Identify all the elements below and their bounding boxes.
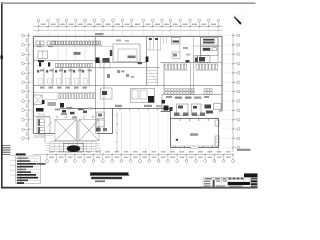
title block bottom row marks bbox=[216, 186, 225, 187]
top right room upper outline bbox=[201, 38, 219, 46]
building left outer wall bbox=[33, 37, 35, 134]
top band pair labels bbox=[37, 46, 42, 47]
skylight center divider bbox=[77, 120, 79, 153]
corridor hatch y93 bbox=[58, 94, 60, 99]
left wing bottom wall east segment bbox=[97, 133, 113, 135]
legend leader lines bbox=[10, 155, 16, 157]
drawing title underline bbox=[90, 175, 130, 177]
left grid bubble stems bbox=[25, 35, 30, 37]
left cluster line y99 bbox=[44, 99, 58, 101]
title block vertical dividers bbox=[213, 177, 215, 187]
shaft bank verticals bbox=[149, 37, 151, 51]
left grid bubbles column bbox=[22, 34, 25, 37]
corridor band hatch right upper bbox=[204, 89, 206, 92]
title block right column cells bbox=[251, 178, 257, 180]
top grid bubbles row bbox=[37, 19, 40, 22]
bottom dimension line bbox=[33, 154, 234, 156]
grid column stubs through top band bbox=[57, 37, 59, 61]
terrace left structure bbox=[34, 136, 46, 138]
left wall bottom blob bbox=[36, 108, 44, 112]
mid room small marks bbox=[117, 70, 120, 73]
courtyard box lower bbox=[172, 52, 180, 59]
hall right wall boxes upper bbox=[215, 120, 219, 126]
title block horizontal divider bbox=[203, 179, 258, 181]
hall left connector wall bbox=[170, 109, 172, 119]
corridor band hatch lower bbox=[165, 92, 167, 95]
wing lower rooms bbox=[97, 112, 105, 119]
courtyard left verticals bbox=[163, 37, 165, 45]
top right left col boxes bbox=[194, 56, 197, 63]
drawing title sub label bbox=[95, 180, 105, 182]
hall right connector wall bbox=[219, 110, 223, 112]
lower left furniture 2 bbox=[38, 127, 44, 134]
mid right wall x193 bbox=[193, 63, 195, 95]
center wall x157 bbox=[157, 37, 159, 86]
scale label right bbox=[237, 149, 251, 151]
left corridor hatch row bbox=[56, 63, 58, 67]
skylight box 2 with X bbox=[79, 120, 99, 141]
courtyard box upper bbox=[172, 38, 181, 45]
terrace end steps left bbox=[46, 143, 51, 145]
hall entrance notch bbox=[191, 147, 198, 149]
center small bar bbox=[110, 50, 112, 56]
left wing bottom wall west segment bbox=[34, 133, 56, 135]
terrace horizontal grid lines bbox=[50, 140, 96, 142]
left grid feed lines bbox=[29, 35, 33, 37]
courtyard second dim line bbox=[121, 112, 123, 148]
left section wall y60 bbox=[34, 60, 96, 62]
building top wall shadow line bbox=[34, 34, 223, 36]
left margin note stack bbox=[3, 145, 11, 147]
skylight partial diagonals bbox=[47, 122, 52, 127]
core text row bbox=[166, 96, 172, 98]
north arrow needle bbox=[234, 16, 242, 25]
terrace dark pool bbox=[67, 145, 81, 152]
left wing room fixtures bbox=[37, 70, 39, 73]
mid bottom wall bbox=[60, 108, 171, 110]
corridor band lower wall bbox=[162, 94, 222, 96]
terrace stage outline bbox=[64, 143, 84, 152]
legend text bars bbox=[17, 157, 28, 159]
core lower box row bbox=[174, 113, 180, 117]
dark door bar 1 bbox=[39, 62, 41, 66]
legend table outline bbox=[16, 156, 41, 183]
top band underline bbox=[34, 45, 103, 47]
title block left cell marks bbox=[204, 181, 211, 182]
big center room inner bbox=[118, 49, 137, 62]
center low box bbox=[131, 89, 155, 103]
top dimension ticks bbox=[37, 25, 39, 27]
hall outline bbox=[171, 119, 219, 148]
top right room lower outline bbox=[201, 47, 219, 56]
dark door bar 2 bbox=[48, 62, 50, 66]
right room A hatch underline bbox=[165, 69, 189, 71]
top right dark bars lower bbox=[203, 48, 211, 51]
courtyard box right edge bbox=[179, 44, 181, 52]
skylight area text blobs bbox=[55, 109, 60, 111]
top band left box pair 1 bbox=[36, 41, 40, 45]
wall under top hatch row bbox=[34, 46, 113, 48]
mid right wall x162 bbox=[163, 63, 165, 95]
top mid text label bbox=[95, 33, 104, 35]
top secondary dimension line bbox=[33, 29, 223, 31]
drawing title text row 1 bbox=[90, 172, 128, 175]
cluster right boxes bbox=[214, 104, 222, 110]
border frame left line bbox=[1, 2, 3, 189]
title block top-right dark strip bbox=[244, 173, 258, 177]
core dark blob 3 bbox=[170, 107, 173, 111]
core wall y111 bbox=[161, 111, 171, 113]
terrace vertical grid lines bbox=[49, 141, 51, 151]
hall right wall boxes lower bbox=[215, 136, 219, 146]
left cluster text bbox=[48, 102, 57, 106]
right dimension line bbox=[232, 33, 234, 152]
lower left furniture 1 bbox=[38, 119, 44, 126]
courtyard speckle labels bbox=[116, 40, 121, 42]
right room B hatch underline bbox=[196, 69, 218, 71]
mid right wall x190 bbox=[190, 63, 192, 95]
center room label bbox=[128, 56, 136, 59]
mid right rooms top wall bbox=[160, 62, 222, 64]
drawing title text row 2 bbox=[91, 177, 122, 179]
top right small room bbox=[198, 56, 211, 63]
mid horizontal wall bbox=[34, 85, 223, 87]
building left wall shadow line bbox=[31, 37, 33, 134]
left room wall y116 bbox=[34, 116, 51, 118]
left room dark label bbox=[38, 60, 44, 62]
lower left room circles bbox=[39, 114, 41, 116]
right grid bubbles column bbox=[237, 34, 240, 37]
north arrow circle bbox=[233, 15, 244, 26]
lower left room outline bbox=[37, 117, 50, 134]
room label x74 bbox=[74, 52, 81, 55]
bottom dimension ticks bbox=[46, 153, 48, 155]
terrace end steps right bbox=[96, 143, 101, 145]
left wing bottom parallel line bbox=[34, 134, 54, 136]
top grid drop lines bbox=[38, 27, 40, 36]
center dark door x146 bbox=[146, 57, 149, 63]
bottom dimension numbers upper bbox=[49, 151, 54, 152]
shaft bank bottom line bbox=[147, 49, 162, 51]
hall bottom column ticks bbox=[174, 146, 176, 148]
hall below dim ticks bbox=[170, 148, 172, 155]
hall bottom inner line bbox=[171, 145, 219, 147]
center corridor marks bbox=[121, 71, 125, 73]
courtyard bottom ticks bbox=[100, 148, 102, 155]
cluster dark marks bbox=[178, 106, 183, 109]
crossed equipment box bbox=[34, 95, 43, 105]
center mark 1 bbox=[138, 62, 143, 64]
left wing room text blobs bbox=[40, 69, 44, 71]
left wing inner wall x95 bbox=[95, 37, 97, 134]
building top outer wall bbox=[34, 36, 223, 38]
left dimension ticks bbox=[27, 35, 29, 37]
top band hatch row bbox=[53, 41, 55, 45]
left wing room beds bbox=[39, 79, 43, 85]
right room B hatch row bbox=[196, 64, 198, 69]
title block outline bbox=[203, 177, 258, 187]
mid wall tick marks bbox=[119, 109, 121, 111]
left cluster dark blob bbox=[60, 103, 64, 108]
mid rooms top dark mark bbox=[186, 60, 190, 63]
hall floor dot bbox=[176, 139, 178, 141]
left wing right wall bbox=[112, 109, 114, 134]
big center room outline bbox=[113, 44, 140, 62]
top grid bubble stems bbox=[38, 22, 40, 27]
title block main dark title bar bbox=[228, 182, 250, 185]
border frame top line bbox=[1, 2, 256, 4]
shaft bank dark marks bbox=[149, 38, 152, 40]
building right outer wall bbox=[221, 37, 223, 112]
x95 dark bars bbox=[96, 58, 100, 64]
courtyard faint column lines bbox=[130, 112, 132, 155]
corridor band hatch upper bbox=[165, 89, 167, 92]
top right room wall x218 bbox=[217, 37, 219, 63]
cluster outline 2 bbox=[192, 104, 202, 115]
border frame bottom line bbox=[1, 187, 258, 189]
x95 upper box bbox=[100, 61, 110, 69]
left wing room dividers bbox=[43, 68, 45, 86]
legend column divider bbox=[20, 156, 22, 183]
skylight center label bbox=[61, 113, 67, 115]
top right room wall x200 bbox=[200, 37, 202, 63]
corridor band hatch right lower bbox=[204, 92, 206, 95]
legend header bar bbox=[16, 153, 26, 155]
small box x100 bbox=[101, 88, 113, 99]
wall top right rooms bbox=[193, 45, 222, 47]
bottom dimension numbers lower bbox=[49, 157, 54, 158]
top dimension numbers bbox=[41, 24, 46, 25]
courtyard dim line bbox=[116, 112, 118, 152]
corridor top wall bbox=[55, 67, 160, 69]
core dark blob 2 bbox=[164, 106, 169, 111]
left dimension line bbox=[28, 33, 30, 141]
center wall y62 bbox=[96, 62, 147, 64]
cluster outline 1 bbox=[177, 104, 189, 115]
bottom grid bubble stems bbox=[46, 155, 48, 160]
core dark blob 1 bbox=[162, 100, 166, 104]
top dimension line bbox=[33, 25, 223, 27]
hall top column ticks bbox=[179, 119, 181, 122]
right dimension ticks bbox=[232, 34, 234, 36]
left margin fold mark bbox=[0, 56, 3, 59]
skylight top circles bbox=[56, 116, 58, 118]
mid wall text blobs bbox=[115, 105, 122, 107]
legend row lines bbox=[16, 158, 41, 160]
left room upper outline bbox=[38, 51, 48, 59]
hall center label bbox=[190, 133, 198, 136]
left wing inner wall x104 bbox=[103, 63, 105, 134]
right grid feed lines bbox=[222, 35, 233, 37]
wall x193 upper bbox=[193, 37, 195, 63]
left corridor line y92 bbox=[34, 92, 96, 94]
left corridor text blobs bbox=[40, 87, 45, 89]
courtyard dark mark right bbox=[195, 58, 198, 63]
skylight box 1 with X bbox=[55, 120, 77, 141]
title block signature bar bbox=[213, 180, 215, 187]
title block top row cells bbox=[229, 178, 232, 180]
stair shaft treads bbox=[147, 70, 158, 72]
left dimension numbers bbox=[26, 38, 27, 43]
center wall x146 bbox=[146, 37, 148, 86]
bottom grid bubbles row bbox=[46, 160, 49, 163]
top right hatched box upper bbox=[203, 39, 215, 41]
right grid bubble stems bbox=[233, 35, 237, 37]
right room A hatch row bbox=[165, 64, 167, 69]
legend wide row extension bbox=[37, 163, 46, 165]
top band left box pair 2 bbox=[47, 41, 51, 45]
